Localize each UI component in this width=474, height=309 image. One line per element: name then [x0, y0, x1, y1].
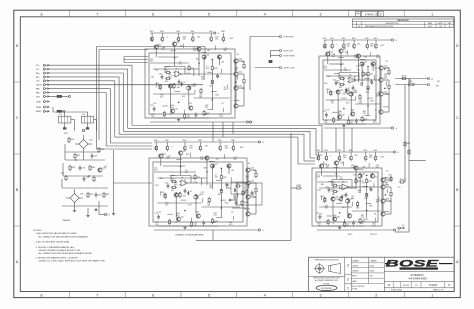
label 2-C10	[324, 44, 328, 48]
svg-text:3.9: 3.9	[398, 187, 401, 189]
wire	[210, 33, 212, 36]
svg-text:R60: R60	[374, 38, 377, 40]
svg-text:R31: R31	[254, 171, 257, 173]
label 4-R47	[361, 215, 364, 219]
svg-text:100: 100	[155, 224, 158, 226]
label 3-R40	[189, 145, 192, 149]
wire mid column	[367, 66, 369, 116]
inline filter FL1	[57, 110, 65, 112]
svg-text:LR+: LR+	[36, 81, 41, 83]
wire shield run	[50, 84, 204, 86]
svg-text:221: 221	[374, 177, 377, 179]
inline filter FL2	[57, 95, 71, 97]
amplifier channel 2 block	[319, 38, 398, 130]
resistor 3-R21	[171, 186, 177, 188]
svg-text:R29: R29	[223, 177, 226, 179]
resistor R97	[65, 175, 67, 181]
transistor 2-Q13	[379, 110, 383, 114]
svg-text:R42: R42	[240, 147, 243, 149]
svg-text:W TML: W TML	[352, 289, 357, 291]
svg-text:DRAWN: DRAWN	[352, 259, 359, 262]
label 2-C11	[324, 65, 328, 69]
capacitor 3-C23	[202, 220, 205, 225]
label 1-R52	[201, 77, 204, 81]
svg-text:681: 681	[364, 57, 367, 59]
svg-text:R31: R31	[242, 62, 245, 64]
Bose logo	[385, 259, 453, 270]
svg-text:49.9: 49.9	[346, 102, 350, 104]
wire output column	[236, 61, 244, 106]
svg-text:LEFT HIGH: LEFT HIGH	[284, 36, 294, 38]
transistor 4-Q3	[354, 166, 358, 170]
svg-text:100: 100	[347, 45, 350, 47]
capacitor 4-C24	[369, 186, 372, 191]
resistor 3-R26	[169, 219, 171, 225]
transistor 2-Q11	[379, 77, 388, 82]
resistor 2-R23	[362, 71, 364, 77]
label 2-R40	[347, 43, 350, 47]
resistor R96	[103, 192, 110, 198]
resistor 2-R31	[388, 69, 390, 75]
svg-text:R56: R56	[213, 222, 216, 224]
svg-text:R42: R42	[380, 45, 383, 47]
notes text block	[34, 230, 106, 263]
resistor 2-R40	[353, 43, 355, 49]
warning text	[309, 276, 345, 285]
label 1-R40	[183, 37, 186, 41]
svg-text:8: 8	[41, 294, 43, 298]
label 3-R48	[246, 176, 249, 180]
transistor 1-Q9	[189, 106, 193, 110]
svg-text:1: 1	[431, 12, 433, 16]
wire 4- negative rail	[317, 229, 393, 231]
svg-text:332: 332	[233, 159, 236, 161]
junction 4-1	[355, 178, 356, 179]
junction 2-2	[367, 66, 368, 67]
svg-text:332: 332	[215, 39, 218, 41]
svg-text:6: 6	[152, 12, 154, 16]
svg-text:100: 100	[193, 50, 196, 52]
svg-text:D1: D1	[190, 191, 192, 193]
svg-text:R50: R50	[365, 38, 368, 40]
wire input bundle horizontals	[50, 64, 133, 66]
svg-text:NOTES:: NOTES:	[34, 230, 42, 232]
label 2-R53	[331, 101, 334, 105]
op-amp 4-U1	[340, 184, 350, 190]
junction 2-8	[384, 68, 385, 69]
capacitor 1-C23	[195, 112, 198, 117]
resistor 4-R26	[327, 219, 329, 225]
svg-text:R29: R29	[370, 74, 373, 76]
label 1-475	[168, 74, 172, 78]
label 4-4.7	[362, 181, 365, 185]
resistor 3-R20	[166, 145, 168, 151]
junction 2-10	[343, 108, 344, 109]
junction 1-3	[170, 84, 171, 85]
wire tie rows	[326, 76, 381, 104]
wire to output pin	[98, 201, 100, 215]
transistor 4-Q13	[381, 212, 385, 216]
svg-text:221: 221	[358, 192, 361, 194]
wire mid column	[366, 178, 368, 218]
svg-text:475: 475	[384, 76, 387, 78]
junction 3-2	[221, 168, 222, 169]
svg-text:R56: R56	[362, 120, 365, 122]
junction 3-3	[176, 192, 177, 193]
wire to line-in 3	[270, 56, 272, 58]
wire feed to lower left amp	[111, 142, 153, 144]
resistor 4-R25	[357, 201, 359, 207]
junction 4-2	[366, 175, 367, 176]
wire tie rows	[158, 178, 241, 207]
wire	[232, 142, 234, 145]
wire 4- positive rail	[317, 151, 393, 153]
svg-text:APPD: APPD	[352, 275, 357, 278]
svg-text:C13: C13	[326, 109, 329, 111]
wire internal verticals	[333, 178, 381, 217]
svg-text:C93: C93	[86, 177, 89, 179]
wire internal verticals	[176, 168, 246, 217]
label 3-R44	[163, 194, 167, 198]
wire power low rows	[62, 187, 108, 189]
label 4-R40	[343, 155, 346, 159]
wire internal verticals	[170, 59, 233, 109]
wire to line-in 2	[270, 51, 272, 58]
label 3-R46	[176, 213, 180, 217]
resistor 1-R20	[165, 71, 171, 73]
label 4-C11	[317, 174, 321, 178]
transistor 2-Q2	[339, 48, 347, 53]
transistor 4-Q10	[381, 177, 390, 182]
label 3-C16	[207, 203, 211, 207]
relay K2	[81, 116, 93, 123]
capacitor 2-C20	[335, 80, 338, 85]
label 1-C12	[193, 84, 196, 88]
svg-text:100: 100	[354, 92, 357, 94]
svg-text:3: 3	[320, 294, 322, 298]
resistor 1-R25	[200, 88, 202, 94]
resistor 3-R31	[255, 172, 257, 178]
svg-text:332: 332	[186, 154, 189, 156]
junction 2-1	[358, 69, 359, 70]
transistor 3-Q7	[194, 194, 202, 199]
junction 1-8	[235, 62, 236, 63]
svg-text:332: 332	[340, 163, 343, 165]
node 4- -V supply	[393, 229, 395, 231]
svg-text:221: 221	[361, 217, 364, 219]
ground 4- gnd	[338, 226, 341, 229]
junction 1-4	[188, 86, 189, 87]
svg-text:100: 100	[177, 87, 180, 89]
svg-text:R54: R54	[215, 94, 218, 96]
label 3-R53	[165, 203, 168, 207]
resistor 1-R30	[178, 36, 180, 42]
svg-text:C13: C13	[158, 211, 161, 213]
svg-text:221: 221	[221, 61, 224, 63]
resistor 1-R20	[161, 36, 163, 42]
svg-text:D: D	[456, 44, 459, 48]
svg-text:RR+: RR+	[36, 89, 41, 91]
svg-text:475: 475	[331, 103, 334, 105]
label 4-R46	[333, 215, 337, 219]
label 2-C12	[354, 90, 357, 94]
svg-text:RF+: RF+	[36, 73, 41, 75]
label 1-R41	[215, 37, 218, 41]
svg-text:5: 5	[208, 12, 210, 16]
relay K1	[58, 116, 71, 123]
third angle projection cell	[314, 257, 344, 291]
svg-text:TD: TD	[415, 285, 418, 287]
node 3- -V supply	[258, 229, 260, 231]
wire tie rows	[319, 188, 381, 211]
wire	[375, 152, 377, 155]
transistor 3-Q12	[246, 194, 255, 199]
channel4 output pin	[397, 225, 405, 229]
resistor 4-R20	[332, 184, 338, 186]
transistor 1-Q2	[172, 41, 180, 46]
svg-text:PWR: PWR	[36, 107, 42, 109]
svg-text:C20: C20	[159, 74, 162, 76]
junction 2-4	[351, 92, 352, 93]
label 3-C14	[233, 157, 236, 161]
svg-text:221: 221	[375, 68, 378, 70]
resistor 3-R30	[220, 188, 222, 194]
svg-text:R20: R20	[165, 140, 168, 142]
svg-text:49.9: 49.9	[373, 122, 377, 124]
svg-text:R32: R32	[242, 88, 245, 90]
svg-text:+15: +15	[104, 166, 107, 168]
svg-text:MIL-TL-TML/TW: MIL-TL-TML/TW	[352, 286, 364, 288]
junction 1-5	[212, 81, 213, 82]
svg-text:49.9: 49.9	[154, 169, 158, 171]
junction 4-9	[385, 194, 386, 195]
junction P2	[88, 175, 89, 176]
svg-text:R40: R40	[198, 140, 201, 142]
revision table	[353, 19, 454, 28]
svg-text:R50: R50	[209, 31, 212, 33]
label 4-220	[372, 223, 376, 227]
junction 3-4	[195, 194, 196, 195]
junction 3-5	[221, 190, 222, 191]
transistor 2-Q6	[336, 89, 344, 94]
ground tie	[87, 208, 89, 214]
svg-text:C20: C20	[165, 183, 168, 185]
svg-text:49.9: 49.9	[182, 96, 186, 98]
svg-text:RIGHT HIGH: RIGHT HIGH	[284, 55, 296, 57]
resistor R91	[74, 153, 81, 159]
svg-text:220: 220	[354, 155, 357, 157]
svg-text:R20: R20	[324, 150, 327, 152]
capacitor 4-C23	[352, 220, 355, 225]
svg-text:D1: D1	[348, 88, 350, 90]
label 2-R46	[338, 111, 342, 115]
svg-text:APPD: APPD	[438, 22, 443, 25]
svg-text:R30: R30	[337, 150, 340, 152]
amplifier stage 4- outer feedback loop	[312, 168, 382, 226]
resistor 4-R30	[339, 155, 341, 161]
svg-text:R60: R60	[374, 150, 377, 152]
svg-text:R20: R20	[332, 182, 335, 184]
resistor 1-R60	[222, 36, 224, 42]
junction 1-7	[219, 57, 220, 58]
transistor 1-Q3	[197, 47, 201, 51]
svg-text:100: 100	[324, 122, 327, 124]
label 3-C10	[154, 146, 158, 150]
label 4-1%	[340, 177, 343, 181]
svg-text:CHANNEL 3 POWER AMPLIFIER: CHANNEL 3 POWER AMPLIFIER	[175, 234, 204, 237]
resistor Rp1	[235, 183, 241, 187]
wire top row	[322, 165, 356, 189]
amplifier channel 3 block	[149, 140, 265, 232]
transistor 2-Q7	[349, 91, 357, 96]
svg-text:332: 332	[376, 57, 379, 59]
svg-text:100: 100	[338, 199, 341, 201]
transistor 2-Q10	[379, 65, 388, 70]
wire	[343, 40, 345, 43]
svg-text:SHLD: SHLD	[36, 85, 42, 87]
svg-text:6: 6	[152, 294, 154, 298]
svg-text:7: 7	[96, 12, 98, 16]
svg-text:D1: D1	[344, 195, 346, 197]
svg-text:475: 475	[385, 184, 388, 186]
node 1- +V supply	[214, 32, 216, 34]
svg-text:UNPUBLISHED WORK BOSE CORP: UNPUBLISHED WORK BOSE CORP	[313, 278, 340, 280]
label 1-R50	[193, 48, 196, 52]
node CH1 OUT	[249, 121, 251, 123]
wire	[184, 142, 186, 145]
svg-text:8: 8	[41, 12, 43, 16]
svg-text:3. UNLESS OTHERWISE MARKED, AL: 3. UNLESS OTHERWISE MARKED, ALL	[36, 246, 76, 249]
svg-text:681: 681	[363, 167, 366, 169]
resistor 3-R29	[220, 174, 222, 180]
wire channel1 to channel3 drops	[213, 122, 233, 142]
svg-text:R43: R43	[356, 65, 359, 67]
svg-text:49.9: 49.9	[188, 204, 192, 206]
label 4-C14	[376, 165, 379, 169]
svg-text:RELEASED FOR PRODUCTION: RELEASED FOR PRODUCTION	[365, 25, 393, 28]
ground GND3	[86, 214, 89, 217]
sheet zone column	[345, 257, 352, 291]
svg-text:475: 475	[215, 176, 218, 178]
resistor 3-R22	[179, 192, 181, 198]
svg-text:221: 221	[205, 107, 208, 109]
wire protection bottom	[232, 194, 246, 208]
label 4-R41	[369, 155, 372, 159]
resistor 3-R30	[184, 145, 186, 151]
svg-text:R20: R20	[330, 38, 333, 40]
label 2-C14	[376, 55, 379, 59]
ground 1- gnd	[177, 118, 180, 121]
svg-text:681: 681	[207, 50, 210, 52]
junction 4-6	[360, 173, 361, 174]
wire	[317, 152, 319, 155]
wire internal horizontals	[317, 182, 364, 226]
label 4-R44	[323, 198, 327, 202]
transistor 3-Q10	[246, 167, 255, 172]
wire internal verticals	[338, 66, 379, 115]
svg-text:332: 332	[376, 201, 379, 203]
wire bus into lower amp	[304, 160, 315, 162]
junction 3-8	[246, 170, 247, 171]
wire bus horizontals to right	[132, 125, 322, 127]
wire	[365, 152, 367, 155]
transistor 3-Q11	[246, 180, 255, 185]
svg-text:R54: R54	[370, 101, 373, 103]
amplifier stage 3- outer feedback loop	[149, 158, 247, 226]
svg-text:49.9: 49.9	[219, 116, 223, 118]
resistor 4-R60	[375, 155, 377, 161]
svg-text:.1: .1	[166, 37, 168, 39]
svg-text:475: 475	[246, 178, 249, 180]
svg-text:R10: R10	[154, 140, 157, 142]
svg-text:332: 332	[224, 50, 227, 52]
resistor 1-R22	[173, 83, 175, 89]
resistor 2-R24	[330, 90, 332, 96]
wire to line-in 1	[250, 36, 280, 38]
svg-text:49.9: 49.9	[372, 225, 376, 227]
wire top row	[156, 46, 199, 76]
label 4-R52	[358, 190, 361, 194]
wire feedback loop	[165, 67, 192, 75]
resistor 2-R10	[324, 43, 326, 49]
junction 3-10	[184, 210, 185, 211]
svg-text:R51: R51	[318, 190, 321, 192]
wire tie rows	[153, 69, 230, 98]
label 2-R44	[329, 92, 333, 96]
svg-text:100: 100	[183, 39, 186, 41]
label 3-R41	[225, 145, 228, 149]
junction 4-4	[347, 198, 348, 199]
transistor 2-Q4	[360, 61, 368, 66]
resistor 4-R30	[366, 192, 368, 198]
label 3-220	[229, 222, 233, 226]
resistor 4-R24	[324, 197, 326, 203]
node 4- +V supply	[393, 151, 395, 153]
svg-text:10: 10	[169, 114, 171, 116]
svg-text:3: 3	[347, 264, 349, 268]
svg-text:R50: R50	[218, 140, 221, 142]
wire power mid	[65, 151, 99, 153]
resistor 4-R29	[366, 178, 368, 184]
svg-text:R56: R56	[360, 223, 363, 225]
resistor 2-R60	[375, 43, 377, 49]
capacitor C90	[91, 153, 99, 158]
transistor 4-Q11	[381, 184, 390, 189]
resistor 2-R27	[347, 119, 349, 125]
capacitor 3-C24	[225, 182, 228, 187]
wire	[155, 142, 157, 145]
channel2 output pins	[395, 78, 440, 86]
wire relay bottoms	[63, 120, 96, 132]
svg-text:R20: R20	[160, 31, 163, 33]
svg-text:332: 332	[225, 147, 228, 149]
output pin P3	[104, 213, 106, 215]
resistor 2-R21	[339, 83, 345, 85]
junction 2-0	[340, 64, 341, 65]
svg-text:CHECK: CHECK	[352, 265, 359, 267]
wire output column	[248, 170, 256, 214]
svg-text:100: 100	[318, 225, 321, 227]
capacitor 4-C21	[345, 192, 348, 197]
svg-text:221: 221	[344, 70, 347, 72]
wire	[161, 33, 163, 36]
projection symbol cone	[329, 263, 341, 273]
svg-text:10: 10	[337, 120, 339, 122]
junction 4-3	[332, 197, 333, 198]
transistor 3-Q8	[176, 216, 184, 221]
label 1-C14	[224, 48, 227, 52]
wire feedback loop	[339, 73, 366, 81]
